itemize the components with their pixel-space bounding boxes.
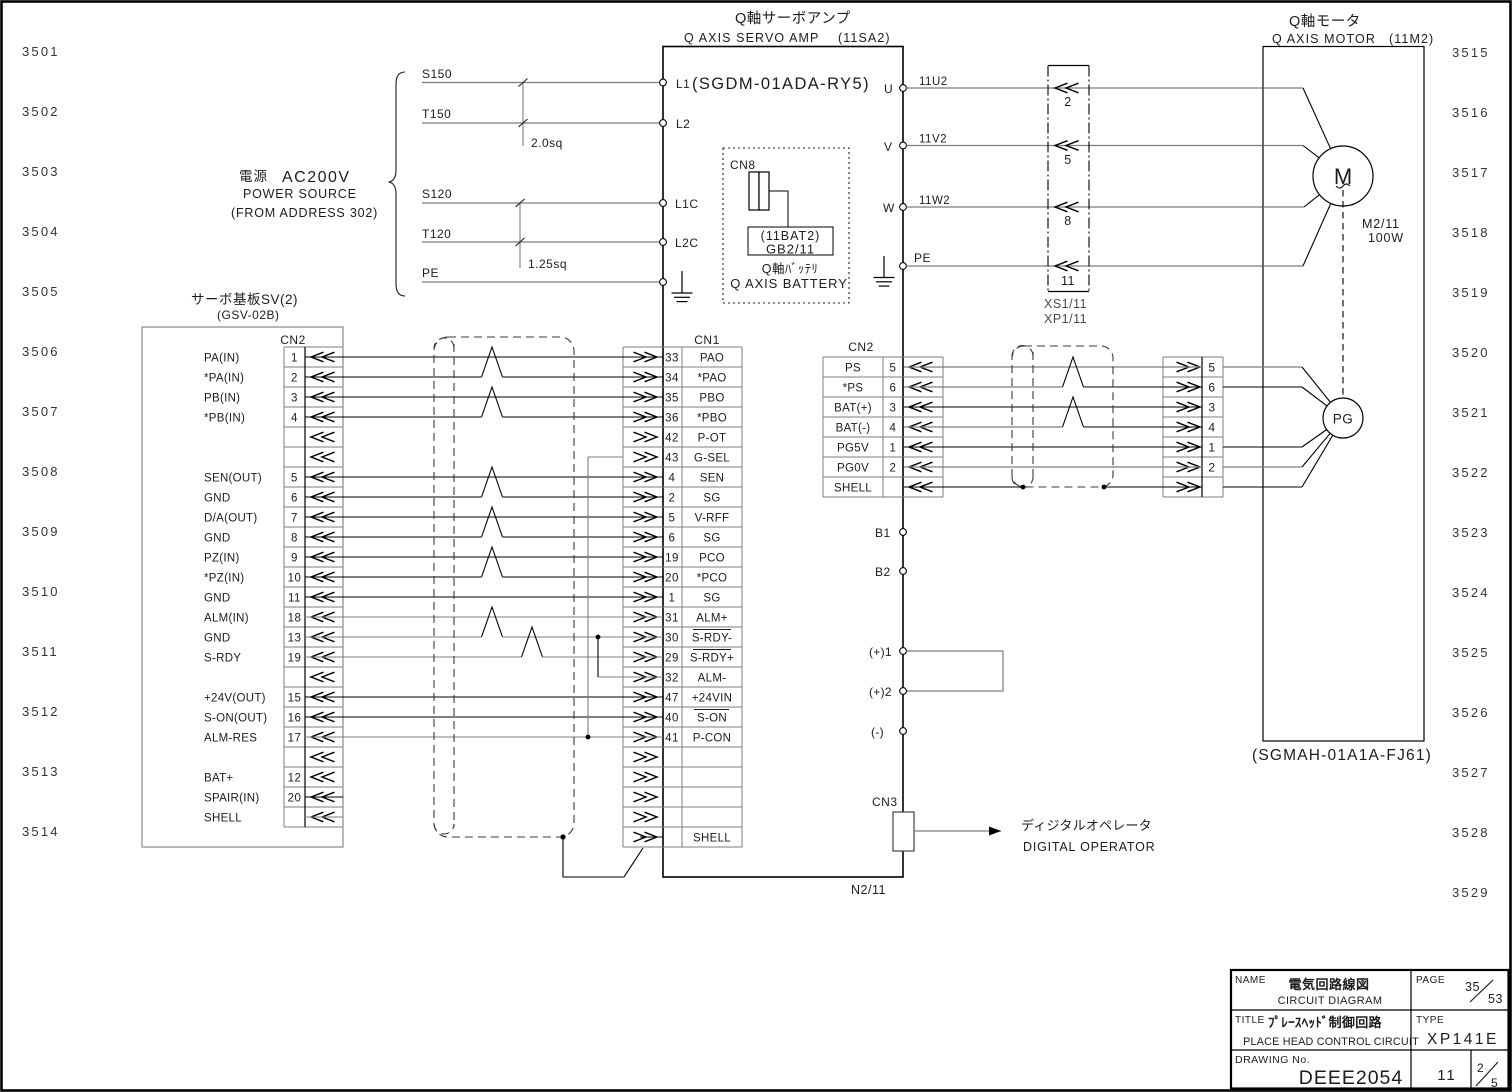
svg-text:(+)1: (+)1: [869, 645, 892, 659]
svg-text:*PB(IN): *PB(IN): [204, 412, 245, 424]
svg-text:3511: 3511: [22, 644, 59, 659]
svg-text:19: 19: [288, 652, 302, 664]
svg-text:3506: 3506: [22, 344, 60, 359]
svg-text:2: 2: [1477, 1061, 1484, 1075]
svg-text:11: 11: [1061, 274, 1075, 288]
wire PG5V: [904, 430, 1327, 448]
svg-text:9: 9: [291, 552, 298, 564]
svg-text:T150: T150: [422, 107, 451, 121]
svg-text:XS1/11: XS1/11: [1044, 297, 1087, 311]
wire BAT(-): [904, 397, 1202, 427]
svg-text:SEN(OUT): SEN(OUT): [204, 472, 262, 484]
svg-text:PLACE HEAD CONTROL CIRCUIT: PLACE HEAD CONTROL CIRCUIT: [1243, 1036, 1419, 1048]
svg-text:3509: 3509: [22, 524, 60, 539]
svg-text:(11SA2): (11SA2): [838, 31, 891, 45]
svg-text:1: 1: [669, 592, 676, 604]
svg-text:6: 6: [890, 382, 897, 394]
terminal L2C: [660, 236, 699, 250]
wire PA: [305, 356, 663, 358]
svg-text:6: 6: [669, 532, 676, 544]
CN8 connector symbol: [749, 172, 788, 227]
svg-text:電気回路線図: 電気回路線図: [1288, 977, 1369, 992]
wire GND/SG: [305, 507, 663, 537]
svg-text:11U2: 11U2: [919, 76, 948, 88]
wire SHELL encoder with shield taps: [904, 435, 1333, 489]
svg-text:*PS: *PS: [843, 382, 864, 394]
svg-text:5: 5: [669, 512, 676, 524]
svg-text:42: 42: [665, 432, 679, 444]
svg-text:BAT(-): BAT(-): [836, 422, 871, 434]
svg-text:3503: 3503: [22, 164, 60, 179]
svg-text:4: 4: [669, 472, 676, 484]
svg-text:(+)2: (+)2: [869, 685, 892, 699]
svg-text:P-CON: P-CON: [693, 732, 732, 744]
svg-text:3528: 3528: [1452, 825, 1490, 840]
svg-text:S-ON: S-ON: [697, 712, 727, 724]
svg-text:+24V(OUT): +24V(OUT): [204, 692, 266, 704]
svg-text:20: 20: [665, 572, 679, 584]
svg-text:*PZ(IN): *PZ(IN): [204, 572, 244, 584]
svg-text:11: 11: [288, 592, 301, 604]
svg-text:電源: 電源: [239, 169, 268, 184]
connector XS1/11 XP1/11: [1044, 66, 1089, 327]
svg-text:1.25sq: 1.25sq: [528, 257, 567, 271]
svg-text:3520: 3520: [1452, 345, 1490, 360]
svg-text:V: V: [884, 140, 893, 154]
svg-text:(GSV-02B): (GSV-02B): [217, 308, 280, 322]
svg-text:3: 3: [291, 392, 298, 404]
svg-text:G-SEL: G-SEL: [694, 452, 730, 464]
svg-text:GND: GND: [204, 532, 230, 544]
svg-text:PG5V: PG5V: [837, 442, 869, 454]
svg-text:S-RDY: S-RDY: [204, 652, 241, 664]
wire PS: [904, 367, 1331, 402]
wire S-ON: [305, 716, 663, 718]
svg-text:PA(IN): PA(IN): [204, 352, 239, 364]
svg-text:19: 19: [665, 552, 679, 564]
svg-text:POWER SOURCE: POWER SOURCE: [243, 187, 357, 201]
wire size tick 2.0sq: [519, 79, 563, 151]
svg-text:CN3: CN3: [872, 795, 898, 809]
terminal L1C: [660, 197, 699, 211]
wire SEN: [305, 476, 663, 478]
svg-text:BAT(+): BAT(+): [834, 402, 872, 414]
ground inside amp near PE: [874, 256, 895, 286]
svg-text:(SGDM-01ADA-RY5): (SGDM-01ADA-RY5): [692, 75, 870, 93]
motor title: [1272, 13, 1434, 46]
wire PB: [305, 396, 663, 398]
svg-text:3519: 3519: [1452, 285, 1490, 300]
svg-text:*PBO: *PBO: [697, 412, 727, 424]
svg-text:PE: PE: [914, 251, 931, 265]
svg-text:1: 1: [890, 442, 897, 454]
terminal U with wire 11U2: [884, 76, 1263, 96]
svg-text:P-OT: P-OT: [698, 432, 727, 444]
svg-text:4: 4: [1208, 420, 1215, 434]
svg-text:3521: 3521: [1452, 405, 1490, 420]
connector CN3 digital operator: [872, 795, 1156, 854]
svg-text:PAO: PAO: [700, 352, 724, 364]
wire V into motor: [1263, 146, 1319, 158]
connector CN1 of servo amp: [623, 333, 742, 847]
svg-text:6: 6: [1208, 380, 1215, 394]
wire *PZ: [305, 547, 663, 577]
svg-text:PCO: PCO: [699, 552, 725, 564]
wire ALM: [305, 616, 663, 618]
svg-text:CN8: CN8: [730, 158, 756, 172]
svg-text:36: 36: [665, 412, 679, 424]
net label N2/11: [851, 883, 886, 897]
svg-text:SG: SG: [703, 532, 720, 544]
left margin line numbers 3501-3514: [22, 44, 60, 839]
terminal PE right with wire: [900, 251, 1263, 269]
encoder cable shield (dashed): [1012, 346, 1113, 488]
svg-text:S-RDY-: S-RDY-: [692, 632, 732, 644]
svg-text:DIGITAL OPERATOR: DIGITAL OPERATOR: [1023, 840, 1156, 854]
svg-text:3515: 3515: [1452, 45, 1490, 60]
terminal (+)2: [869, 685, 906, 699]
title block: [1231, 970, 1509, 1090]
svg-text:11: 11: [1437, 1067, 1457, 1084]
svg-text:L2C: L2C: [675, 236, 699, 250]
svg-text:T120: T120: [422, 227, 451, 241]
svg-text:(FROM ADDRESS 302): (FROM ADDRESS 302): [231, 206, 378, 220]
terminal L1: [660, 79, 667, 86]
motor M2/11 100W: [1313, 146, 1404, 245]
terminal (+)1 with jumper: [869, 645, 1003, 691]
svg-text:(11M2): (11M2): [1389, 32, 1434, 46]
svg-text:TYPE: TYPE: [1416, 1015, 1444, 1026]
svg-text:GND: GND: [204, 632, 230, 644]
svg-text:TITLE: TITLE: [1235, 1015, 1265, 1026]
svg-text:3: 3: [890, 402, 897, 414]
svg-text:CN2: CN2: [848, 340, 874, 354]
wire W into motor: [1263, 195, 1320, 207]
svg-text:CN2: CN2: [280, 333, 306, 347]
svg-text:2: 2: [1064, 95, 1071, 109]
svg-text:5: 5: [1491, 1076, 1498, 1090]
svg-text:*PA(IN): *PA(IN): [204, 372, 244, 384]
svg-text:CIRCUIT DIAGRAM: CIRCUIT DIAGRAM: [1278, 995, 1383, 1007]
battery GB2/11: [730, 227, 848, 291]
svg-text:3514: 3514: [22, 824, 60, 839]
svg-text:SG: SG: [703, 492, 720, 504]
svg-text:PBO: PBO: [699, 392, 724, 404]
svg-text:GND: GND: [204, 492, 230, 504]
svg-text:2: 2: [669, 492, 676, 504]
svg-text:D/A(OUT): D/A(OUT): [204, 512, 258, 524]
svg-text:18: 18: [288, 612, 302, 624]
svg-text:2: 2: [1208, 460, 1215, 474]
svg-text:11V2: 11V2: [919, 134, 947, 146]
wire PZ: [305, 556, 663, 558]
svg-text:V-RFF: V-RFF: [695, 512, 730, 524]
svg-text:3527: 3527: [1452, 765, 1490, 780]
wire S150 to L1: [422, 67, 660, 83]
wire size tick 1.25sq: [516, 199, 568, 271]
svg-text:S150: S150: [422, 67, 452, 81]
svg-text:3525: 3525: [1452, 645, 1490, 660]
servo amp title: [684, 10, 891, 45]
wire PG0V: [904, 433, 1330, 467]
svg-text:SPAIR(IN): SPAIR(IN): [204, 792, 260, 804]
svg-text:100W: 100W: [1368, 231, 1404, 245]
svg-text:3516: 3516: [1452, 105, 1490, 120]
wire BAT(+): [904, 406, 1202, 408]
wire *PS: [904, 357, 1327, 406]
terminal PE left: [660, 279, 667, 286]
wire GND/SG: [305, 467, 663, 497]
svg-text:Q軸サーボアンプ: Q軸サーボアンプ: [735, 10, 851, 27]
svg-text:13: 13: [288, 632, 302, 644]
encoder connector table: [1163, 357, 1223, 497]
svg-text:29: 29: [665, 652, 679, 664]
brace for power source: [389, 72, 406, 296]
terminal V with wire 11V2: [884, 134, 1263, 155]
wire S120 to L1C: [422, 187, 660, 203]
svg-text:M2/11: M2/11: [1362, 217, 1400, 231]
svg-text:NAME: NAME: [1235, 975, 1266, 986]
terminal W with wire 11W2: [883, 195, 1263, 215]
svg-text:2.0sq: 2.0sq: [531, 136, 563, 150]
svg-text:11W2: 11W2: [919, 195, 950, 207]
svg-text:BAT+: BAT+: [204, 772, 233, 784]
wire stub SPAIR(IN): [305, 796, 343, 798]
svg-text:30: 30: [665, 632, 679, 644]
svg-text:3522: 3522: [1452, 465, 1490, 480]
connector CN2 of servo amp (encoder): [823, 340, 943, 497]
svg-text:Q AXIS MOTOR: Q AXIS MOTOR: [1272, 32, 1376, 46]
svg-text:PG: PG: [1333, 412, 1354, 427]
svg-text:N2/11: N2/11: [851, 883, 886, 897]
svg-text:*PAO: *PAO: [697, 372, 726, 384]
svg-text:5: 5: [890, 362, 897, 374]
svg-text:32: 32: [665, 672, 679, 684]
wire U into motor: [1263, 88, 1331, 149]
svg-text:7: 7: [291, 512, 298, 524]
svg-text:SEN: SEN: [700, 472, 725, 484]
svg-text:Q AXIS BATTERY: Q AXIS BATTERY: [730, 276, 848, 291]
svg-text:PAGE: PAGE: [1416, 975, 1445, 986]
wire T150 to L2: [422, 107, 660, 123]
svg-text:ﾌﾟﾚｰｽﾍｯﾄﾞ制御回路: ﾌﾟﾚｰｽﾍｯﾄﾞ制御回路: [1268, 1015, 1382, 1030]
svg-text:サーボ基板SV(2): サーボ基板SV(2): [191, 291, 298, 307]
svg-text:SHELL: SHELL: [834, 482, 872, 494]
svg-text:1: 1: [291, 352, 298, 364]
svg-text:ALM(IN): ALM(IN): [204, 612, 249, 624]
encoder PG: [1323, 398, 1363, 438]
shield drain wire to SHELL: [560, 834, 663, 877]
svg-text:2: 2: [890, 462, 897, 474]
svg-text:41: 41: [665, 732, 679, 744]
terminal B1: [875, 526, 906, 540]
svg-text:17: 17: [288, 732, 302, 744]
wire +24V: [305, 696, 663, 698]
svg-text:Q AXIS SERVO AMP: Q AXIS SERVO AMP: [684, 31, 819, 45]
wire GND/SG: [305, 596, 663, 598]
svg-text:3518: 3518: [1452, 225, 1490, 240]
wire G-SEL jog: [586, 457, 623, 739]
svg-text:+24VIN: +24VIN: [692, 692, 732, 704]
svg-text:3504: 3504: [22, 224, 60, 239]
svg-text:20: 20: [288, 792, 302, 804]
svg-text:PE: PE: [422, 266, 439, 280]
svg-text:U: U: [884, 82, 893, 96]
servo board title SV(2): [191, 291, 298, 322]
svg-text:3508: 3508: [22, 464, 60, 479]
terminal L2: [660, 117, 691, 131]
shaft dashed link motor to encoder: [1342, 190, 1344, 398]
svg-text:DRAWING No.: DRAWING No.: [1235, 1054, 1310, 1066]
svg-text:S120: S120: [422, 187, 452, 201]
terminal (-): [871, 725, 906, 739]
svg-text:5: 5: [1064, 153, 1071, 167]
svg-text:3523: 3523: [1452, 525, 1490, 540]
svg-text:1: 1: [1208, 440, 1215, 454]
svg-text:3526: 3526: [1452, 705, 1490, 720]
svg-text:L1C: L1C: [675, 197, 699, 211]
svg-text:SG: SG: [703, 592, 720, 604]
svg-text:10: 10: [288, 572, 302, 584]
motor box 11M2: [1263, 47, 1424, 742]
wire PE to amp: [422, 266, 660, 282]
svg-text:31: 31: [665, 612, 679, 624]
svg-text:16: 16: [288, 712, 302, 724]
svg-text:(SGMAH-01A1A-FJ61): (SGMAH-01A1A-FJ61): [1252, 747, 1432, 764]
svg-text:15: 15: [288, 692, 302, 704]
svg-text:L2: L2: [676, 117, 690, 131]
svg-text:ALM-RES: ALM-RES: [204, 732, 257, 744]
motor model label (SGMAH-01A1A-FJ61): [1252, 747, 1432, 764]
servo board box GSV-02B: [142, 327, 343, 847]
svg-text:4: 4: [890, 422, 897, 434]
svg-text:6: 6: [291, 492, 298, 504]
power source label AC200V: [231, 169, 378, 220]
svg-text:S-RDY+: S-RDY+: [690, 652, 734, 664]
svg-text:3524: 3524: [1452, 585, 1490, 600]
svg-text:8: 8: [291, 532, 298, 544]
svg-text:8: 8: [1064, 214, 1071, 228]
wire D/A: [305, 516, 663, 518]
svg-text:5: 5: [291, 472, 298, 484]
wire stub SHELL left: [305, 816, 343, 818]
cable shield (dashed) CN2-CN1: [434, 337, 574, 837]
svg-text:PS: PS: [845, 362, 861, 374]
svg-text:34: 34: [665, 372, 679, 384]
wire *PA: [305, 347, 663, 377]
svg-text:XP1/11: XP1/11: [1044, 312, 1087, 326]
wire GND/S-RDY-: [305, 607, 663, 637]
svg-text:B1: B1: [875, 526, 891, 540]
svg-text:35: 35: [1465, 980, 1480, 994]
svg-text:ALM-: ALM-: [698, 672, 727, 684]
svg-text:SHELL: SHELL: [204, 812, 242, 824]
svg-text:*PCO: *PCO: [697, 572, 728, 584]
svg-text:PZ(IN): PZ(IN): [204, 552, 240, 564]
servo amp model label (SGDM-01ADA-RY5): [676, 75, 870, 93]
svg-text:33: 33: [665, 352, 679, 364]
svg-text:3513: 3513: [22, 764, 60, 779]
svg-text:S-ON(OUT): S-ON(OUT): [204, 712, 267, 724]
svg-text:CN1: CN1: [694, 333, 720, 347]
svg-text:3: 3: [1208, 400, 1215, 414]
svg-text:PG0V: PG0V: [837, 462, 869, 474]
svg-text:GND: GND: [204, 592, 230, 604]
svg-text:Q軸モータ: Q軸モータ: [1289, 13, 1361, 30]
connector CN2 of servo board: [204, 333, 343, 827]
svg-text:(-): (-): [871, 725, 884, 739]
connector CN8 battery block: [723, 148, 849, 303]
svg-text:3502: 3502: [22, 104, 60, 119]
svg-text:3529: 3529: [1452, 885, 1490, 900]
svg-text:4: 4: [291, 412, 298, 424]
svg-text:53: 53: [1488, 992, 1503, 1006]
wire ALM- jog with junction: [596, 635, 663, 677]
right margin line numbers 3515-3529: [1452, 45, 1490, 900]
wire T120 to L2C: [422, 227, 660, 242]
svg-text:DEEE2054: DEEE2054: [1299, 1067, 1403, 1089]
svg-text:B2: B2: [875, 565, 891, 579]
svg-text:Q軸ﾊﾞｯﾃﾘ: Q軸ﾊﾞｯﾃﾘ: [762, 262, 818, 276]
wire PE into motor: [1263, 203, 1331, 266]
svg-text:2: 2: [291, 372, 298, 384]
op-amp box Q axis servo amp 11SA2: [663, 47, 903, 878]
svg-text:3512: 3512: [22, 704, 60, 719]
ground below PE terminal: [672, 271, 693, 302]
svg-text:ディジタルオペレータ: ディジタルオペレータ: [1021, 818, 1152, 833]
svg-text:35: 35: [665, 392, 679, 404]
svg-text:ALM+: ALM+: [696, 612, 728, 624]
svg-text:GB2/11: GB2/11: [766, 242, 815, 257]
svg-text:XP141E: XP141E: [1427, 1031, 1499, 1048]
svg-text:3517: 3517: [1452, 165, 1490, 180]
wire S-RDY+: [305, 627, 663, 657]
svg-text:W: W: [883, 201, 895, 215]
terminal B2: [875, 565, 906, 579]
svg-text:AC200V: AC200V: [282, 169, 351, 186]
svg-text:PB(IN): PB(IN): [204, 392, 240, 404]
svg-text:47: 47: [665, 692, 679, 704]
svg-text:L1: L1: [676, 77, 690, 91]
svg-text:3510: 3510: [22, 584, 60, 599]
svg-text:5: 5: [1208, 360, 1215, 374]
wire *PB: [305, 387, 663, 417]
wire ALM-RES/P-CON: [305, 736, 663, 738]
svg-text:3501: 3501: [22, 44, 60, 59]
svg-text:43: 43: [665, 452, 679, 464]
svg-text:3505: 3505: [22, 284, 60, 299]
svg-text:40: 40: [665, 712, 679, 724]
svg-text:3507: 3507: [22, 404, 60, 419]
svg-text:12: 12: [288, 772, 302, 784]
svg-text:SHELL: SHELL: [693, 832, 731, 844]
